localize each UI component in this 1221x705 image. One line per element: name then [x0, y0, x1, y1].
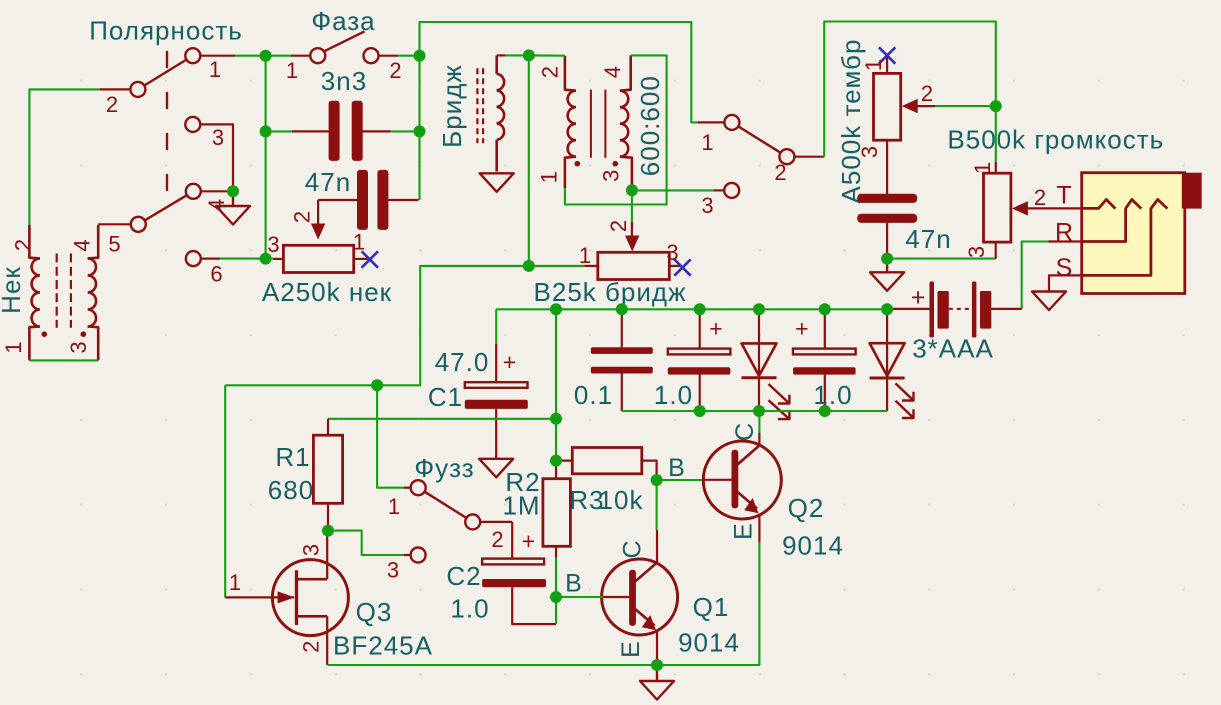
svg-text:5: 5: [108, 232, 121, 257]
wire Q2 emitter down to ground bus: [657, 543, 759, 665]
pickup L1 Нек right coil: [88, 225, 99, 360]
svg-text:C: C: [731, 422, 759, 441]
wire A500k wiper to node: [935, 105, 996, 107]
wire right vertical x=419.5: [418, 56, 420, 132]
SW4 pin 3: [387, 548, 426, 583]
svg-text:47n: 47n: [305, 167, 351, 197]
wire R1 bottom to fuzz pin3: [328, 531, 404, 555]
junction 3n3 left: [260, 125, 272, 137]
ground at SW1 pin 4: [216, 191, 250, 224]
node label B at Q1: [565, 570, 583, 598]
potentiometer RV2 B25k бридж: [534, 240, 687, 307]
svg-text:47.0: 47.0: [435, 347, 490, 377]
svg-text:1: 1: [970, 161, 995, 174]
wire node to Q2 base: [657, 479, 704, 481]
svg-text:Фаза: Фаза: [311, 6, 375, 36]
junction A250k pin3 node: [260, 253, 272, 265]
resistor R3 10k: [556, 448, 657, 516]
transistor Q3 BF245A JFET: [225, 531, 433, 665]
wire node to T1 pin2: [529, 54, 565, 56]
svg-text:2: 2: [11, 238, 36, 251]
svg-text:1: 1: [229, 570, 242, 595]
svg-text:B25k бридж: B25k бридж: [534, 277, 687, 307]
no-connect X at B25k pin3: [674, 259, 690, 275]
wire SW1 pin1 to SW2 pin1: [235, 55, 291, 57]
wire jack R to battery plus: [1022, 242, 1081, 309]
junction R1 wire node: [550, 413, 562, 425]
svg-text:0.1: 0.1: [574, 380, 613, 410]
svg-text:3: 3: [964, 245, 989, 258]
label Бридж: [437, 64, 467, 148]
label 600:600: [635, 75, 665, 176]
junction bus at LED1: [753, 303, 765, 315]
svg-text:C: C: [619, 539, 647, 558]
junction SW1 pin1 node: [260, 50, 272, 62]
capacitor C1 47.0: [428, 309, 528, 459]
wire Q3 source to emitter node: [328, 664, 658, 666]
SW4 pin 2: [480, 522, 513, 552]
svg-text:2: 2: [290, 210, 315, 223]
svg-text:2: 2: [389, 58, 402, 83]
svg-text:6: 6: [210, 262, 223, 287]
wire Бридж top to node: [497, 54, 529, 56]
ground at Q1 emitter: [640, 665, 674, 700]
wire SW2 pin2 to 3n3 right: [398, 55, 420, 57]
SW1 mechanical link (dashed): [166, 51, 168, 209]
wire node down to Q1 collector: [656, 480, 658, 530]
svg-text:3: 3: [387, 558, 400, 583]
switch SW3 tone select: [724, 115, 794, 164]
svg-text:T: T: [1056, 182, 1072, 210]
junction R2/R3 node: [550, 455, 562, 467]
junction emitter ground node: [651, 659, 663, 671]
label Полярность: [89, 16, 243, 46]
label Фузз: [414, 453, 474, 483]
label Нек: [0, 266, 26, 314]
svg-text:3: 3: [299, 543, 324, 556]
svg-text:1: 1: [537, 170, 562, 183]
svg-text:1M: 1M: [502, 491, 540, 521]
transformer T1 primary coil: [565, 56, 576, 188]
wire top supply bus: [496, 308, 887, 310]
junction battery plus node: [881, 303, 893, 315]
svg-text:Q1: Q1: [693, 592, 730, 622]
junction bus at 1.0 cap: [694, 303, 706, 315]
no-connect X at A250k pin1: [362, 251, 378, 267]
jack J1 tip contact: [1056, 182, 1115, 210]
svg-text:2: 2: [106, 92, 119, 117]
pickup L2 magnet (dashed): [477, 68, 483, 143]
svg-text:B: B: [565, 570, 583, 598]
wire down to Q3 gate: [224, 385, 226, 597]
junction bottom bus LED1/Q2: [753, 405, 765, 417]
svg-text:1: 1: [286, 58, 299, 83]
LED D2: [870, 309, 914, 418]
wire jack S to ground: [1049, 275, 1082, 291]
svg-text:C2: C2: [446, 561, 481, 591]
svg-text:2: 2: [774, 160, 787, 185]
switch SW1 contact 3: [185, 117, 200, 132]
junction bottom bus 1.0: [694, 405, 706, 417]
wire Нек pin2 to SW1 pin2: [29, 89, 99, 225]
label A500k тембр: [836, 39, 866, 204]
svg-text:3: 3: [267, 232, 280, 257]
svg-text:2: 2: [299, 640, 324, 653]
wire R2 bottom to Q1 base node: [555, 558, 557, 625]
ground at jack sleeve: [1032, 292, 1066, 311]
transistor Q1 9014: [602, 530, 740, 665]
svg-text:+: +: [911, 284, 927, 312]
switch SW1 contact 6: [186, 251, 201, 266]
svg-text:1: 1: [579, 243, 592, 268]
svg-text:+: +: [522, 528, 536, 554]
wire Q2 collector to bus: [758, 411, 760, 433]
svg-text:A250k нек: A250k нек: [262, 277, 392, 307]
wire left vertical bus x=265.6: [265, 56, 267, 259]
wire Q1 base: [556, 596, 603, 598]
svg-text:3*AAA: 3*AAA: [912, 334, 994, 364]
svg-text:3: 3: [857, 145, 882, 158]
svg-text:4: 4: [600, 65, 625, 78]
svg-text:Полярность: Полярность: [89, 16, 243, 46]
switch SW2 Фаза: [310, 31, 378, 63]
ground at C1: [479, 459, 513, 478]
capacitor 1.0 second: [793, 309, 856, 411]
svg-text:1: 1: [209, 57, 222, 82]
svg-text:Q3: Q3: [356, 597, 393, 627]
svg-text:3: 3: [701, 193, 714, 218]
svg-text:1: 1: [1, 340, 26, 353]
svg-text:1: 1: [701, 130, 714, 155]
svg-text:E: E: [617, 640, 645, 658]
transformer T1 secondary coil: [620, 55, 632, 190]
SW1 pin 6: [200, 259, 224, 287]
transformer T1 pin numbers: [537, 65, 626, 183]
wire top loop to SW3 pin1: [420, 22, 699, 122]
jack J1 ring contact: [1055, 200, 1141, 247]
SW4 pin 1: [388, 488, 412, 519]
capacitor 47n tone: [857, 194, 951, 259]
potentiometer RV3 A500k: [857, 56, 901, 195]
resistor R2 1M: [502, 461, 570, 558]
capacitor C2 1.0: [446, 522, 556, 624]
B25k wiper arrow: [625, 236, 639, 252]
SW1 pin 3: [200, 124, 233, 191]
SW3 pin 1: [698, 122, 725, 155]
wire T1 pin1 to pin4 loop: [565, 55, 667, 204]
wire x=419.5 down to 47n: [418, 131, 420, 200]
junction 3n3 right: [414, 125, 426, 137]
SW3 pin 2: [774, 157, 824, 185]
switch SW4 fuzz: [411, 480, 481, 529]
A500k wiper arrow: [902, 81, 935, 113]
SW1 pin 5: [98, 224, 131, 256]
junction at SW1 pins 3-4 to ground: [227, 185, 239, 197]
svg-text:2: 2: [538, 65, 563, 78]
junction T1 pin3 node: [626, 184, 638, 196]
wire SW3 pin2 to A500k wiper node: [824, 22, 996, 157]
wire B25k pin1 node: [529, 265, 584, 267]
svg-text:Фузз: Фузз: [414, 453, 474, 483]
junction bottom bus 1.0 second: [819, 405, 831, 417]
svg-text:B: B: [668, 454, 686, 482]
resistor R1 680: [268, 419, 343, 531]
svg-text:3: 3: [212, 125, 225, 150]
svg-text:4: 4: [70, 238, 95, 251]
SW1 pin 4: [200, 191, 233, 211]
B500k wiper arrow: [1012, 185, 1081, 216]
svg-text:R1: R1: [275, 442, 310, 472]
pickup L1 polarity dots: [42, 331, 87, 337]
potentiometer RV1 A250k нек: [262, 230, 392, 308]
junction Q1 base node: [550, 591, 562, 603]
SW2 pin 2: [378, 56, 403, 83]
capacitor 3n3: [266, 66, 420, 161]
svg-text:1.0: 1.0: [813, 380, 852, 410]
svg-text:2: 2: [921, 81, 934, 106]
svg-text:+: +: [795, 316, 809, 342]
junction bus at x=556: [550, 303, 562, 315]
svg-text:Q2: Q2: [788, 493, 825, 523]
svg-text:2: 2: [491, 527, 504, 552]
svg-text:3n3: 3n3: [321, 66, 367, 96]
SW2 pin 1: [286, 56, 311, 83]
capacitor 0.1: [574, 309, 653, 411]
svg-text:S: S: [1056, 254, 1074, 282]
svg-text:1: 1: [388, 494, 401, 519]
transistor Q2 9014: [703, 422, 844, 561]
ground at Бридж pickup: [480, 173, 514, 192]
junction bus at 0.1 cap: [616, 303, 628, 315]
svg-text:+: +: [709, 316, 723, 342]
svg-text:600:600: 600:600: [635, 75, 665, 176]
wire T1 pin3 to SW3 pin3: [632, 189, 714, 191]
pickup L2 Бридж coil: [497, 55, 504, 171]
junction Q2 base node: [651, 474, 663, 486]
svg-text:3: 3: [66, 340, 91, 353]
svg-text:BF245A: BF245A: [333, 631, 433, 661]
transformer T1 polarity dots: [575, 161, 619, 167]
switch SW1 polarity section B: [131, 184, 201, 232]
wire 47n node to B500k pin3: [887, 257, 996, 259]
junction A500k wiper node: [990, 100, 1002, 112]
svg-text:E: E: [730, 522, 758, 540]
jack J1 body: [1082, 173, 1202, 294]
wire 47n to A250k wiper: [290, 200, 319, 226]
svg-text:B500k громкость: B500k громкость: [947, 125, 1164, 155]
svg-text:+: +: [503, 349, 517, 375]
capacitor 47n neck: [305, 167, 419, 230]
junction fuzz branch: [371, 379, 383, 391]
wire node down to B25k pin1 node: [528, 55, 530, 266]
wire bottom filter bus: [622, 410, 887, 412]
SW1 pin 1: [200, 56, 235, 82]
svg-text:1: 1: [861, 58, 886, 71]
SW1 pin 2: [100, 89, 132, 117]
SW3 pin 3: [701, 183, 739, 218]
ground at 47n: [870, 259, 904, 291]
svg-text:1.0: 1.0: [450, 594, 489, 624]
svg-text:3: 3: [599, 169, 624, 182]
svg-text:Бридж: Бридж: [437, 64, 467, 148]
label Фаза: [311, 6, 375, 36]
svg-text:9014: 9014: [782, 531, 844, 561]
wire Нек pins 1-3 bottom link: [29, 359, 98, 361]
svg-text:2: 2: [606, 219, 631, 232]
node label B at Q2: [668, 454, 686, 482]
svg-text:1: 1: [353, 230, 366, 255]
svg-text:Нек: Нек: [0, 266, 26, 314]
svg-text:1.0: 1.0: [654, 380, 693, 410]
junction 47n ground node: [881, 253, 893, 265]
label B500k громкость: [947, 125, 1164, 155]
wire SW1 pin6 to A250k pin3: [220, 258, 273, 260]
svg-text:10k: 10k: [599, 485, 644, 515]
junction bus at 1.0 cap 2: [819, 303, 831, 315]
junction B25k pin1 node: [523, 260, 535, 272]
pickup L1 core (dashed): [57, 253, 71, 327]
svg-text:2: 2: [1034, 185, 1047, 210]
junction Бридж top node: [523, 49, 535, 61]
pickup L1 Нек left coil: [29, 225, 40, 360]
svg-text:4: 4: [204, 198, 229, 211]
wire bus down to R1/R2 column: [555, 309, 557, 460]
svg-text:680: 680: [268, 475, 314, 505]
battery BT1 3*AAA: [887, 282, 1022, 364]
svg-text:9014: 9014: [678, 628, 740, 658]
capacitor 1.0 first: [654, 309, 730, 411]
switch SW1 polarity section A: [130, 48, 200, 97]
junction SW2 pin2 node: [414, 50, 426, 62]
transformer T1 core: [591, 90, 606, 158]
wire B25k node to fuzz feed: [225, 266, 529, 385]
svg-text:C1: C1: [428, 382, 463, 412]
wire branch down to fuzz pin1: [377, 385, 404, 487]
pickup L1 pin numbers: [1, 238, 95, 354]
A250k wiper arrow: [311, 224, 325, 240]
jack J1 sleeve contact: [1056, 200, 1168, 283]
potentiometer RV4 B500k: [964, 161, 1011, 259]
wire node down to B500k pin1: [995, 106, 997, 162]
wire T1 pin3 to B25k wiper: [606, 190, 632, 237]
svg-text:47n: 47n: [905, 224, 951, 254]
no-connect X at A500k pin1: [879, 47, 895, 63]
LED D1: [742, 309, 790, 419]
wire R1 top to bus column: [328, 418, 556, 420]
junction R1 bottom / Q3 drain: [322, 525, 334, 537]
